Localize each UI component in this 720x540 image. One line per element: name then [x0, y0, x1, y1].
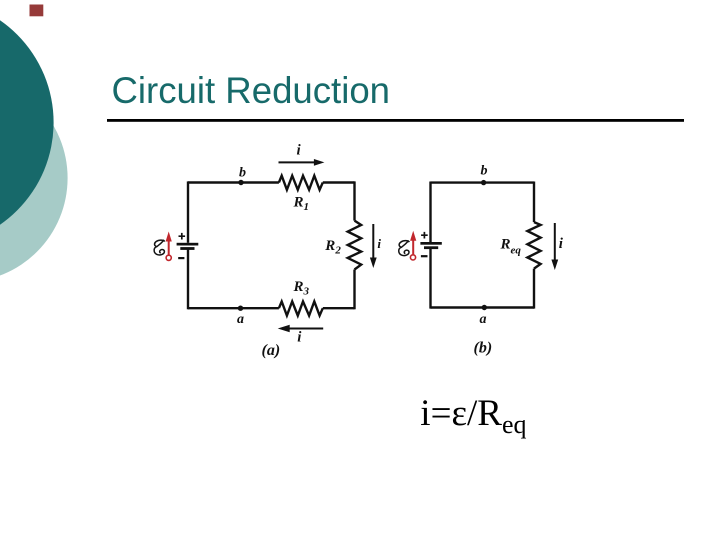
node a (a) [238, 306, 243, 311]
battery (a) plus sign [179, 233, 186, 240]
svg-text:i: i [377, 236, 381, 251]
svg-text:i: i [297, 142, 302, 158]
battery source (b): short plate [424, 246, 438, 249]
svg-text:Circuit Reduction: Circuit Reduction [112, 70, 391, 111]
emf red circle terminal (b) [410, 255, 415, 260]
dark teal circle (decoration) [0, 0, 54, 247]
wire: (a) top-right segment [323, 181, 355, 183]
svg-text:R2: R2 [324, 238, 341, 257]
svg-text:(a): (a) [262, 342, 281, 359]
current arrow (b) [551, 223, 558, 270]
node a (b) [482, 305, 487, 310]
emf red circle terminal (a) [166, 255, 171, 260]
current arrow top (a) [279, 159, 325, 166]
current arrow right (a) [370, 224, 377, 268]
resistor R2 zigzag [348, 221, 362, 270]
resistor R1 zigzag [279, 176, 323, 190]
maroon accent square [30, 5, 44, 17]
svg-text:R3: R3 [293, 279, 310, 298]
node b (a) [238, 180, 243, 185]
battery (a) minus sign [178, 257, 184, 259]
wire: (a) right lower segment [353, 270, 355, 310]
emf red arrow (b) [410, 231, 416, 255]
resistor Req zigzag [527, 222, 540, 269]
wire: (a) left lower segment [187, 250, 189, 310]
svg-text:b: b [481, 164, 488, 179]
battery source (a): short plate [180, 247, 194, 250]
wire: (a) bottom-left segment [188, 307, 279, 309]
wire: (a) bottom-right segment [323, 307, 355, 309]
svg-text:a: a [480, 312, 487, 327]
wire: (a) top-left segment b to left corner [188, 181, 279, 183]
svg-text:a: a [237, 312, 244, 327]
wire: (b) right lower segment [533, 269, 535, 309]
node b (b) [481, 180, 486, 185]
wire: (b) left upper segment [429, 182, 431, 243]
emf red arrow (a) [166, 232, 172, 255]
resistor R3 zigzag [279, 302, 323, 316]
battery source (a): long plate [177, 243, 199, 246]
svg-text:i: i [297, 329, 302, 345]
wire: (b) bottom segment [431, 306, 535, 308]
wire: (b) top segment [431, 181, 535, 183]
wire: (b) left lower segment [429, 249, 431, 309]
current arrow bottom (a) [278, 325, 324, 332]
svg-text:(b): (b) [474, 340, 493, 357]
title underline rule [107, 119, 684, 122]
battery source (b): long plate [420, 242, 441, 245]
wire: (a) left upper segment [187, 181, 189, 242]
emf script E symbol (b) [399, 241, 410, 256]
svg-text:Req: Req [500, 237, 522, 257]
svg-text:b: b [239, 165, 246, 180]
battery (b) plus sign [421, 232, 428, 239]
emf script E symbol (a) [154, 240, 165, 255]
wire: (a) right upper segment [353, 181, 355, 220]
svg-text:i=ε/Req: i=ε/Req [420, 393, 526, 439]
svg-text:i: i [559, 236, 564, 252]
light teal circle (decoration) [0, 74, 68, 282]
wire: (b) right upper segment [533, 182, 535, 223]
svg-text:R1: R1 [293, 195, 310, 214]
battery (b) minus sign [421, 255, 428, 257]
